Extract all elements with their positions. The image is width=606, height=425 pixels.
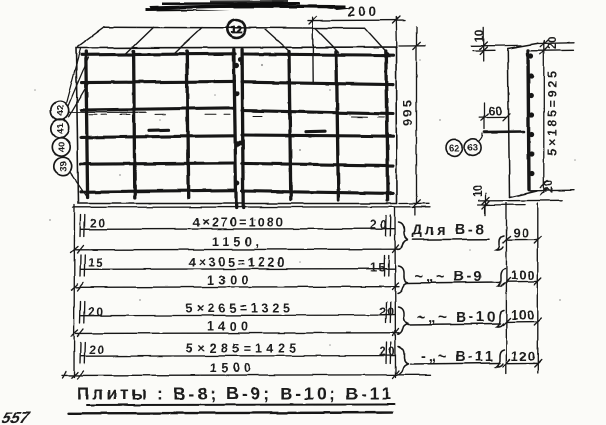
svg-text:15: 15: [370, 261, 385, 275]
svg-text:100: 100: [511, 268, 535, 283]
side view outline: [508, 44, 537, 198]
qty row 120: [503, 360, 541, 367]
annotation circles 39-42 with leaders: [50, 101, 72, 175]
dimension 5x185=925 with 20/20: [529, 40, 574, 195]
svg-text:63: 63: [468, 143, 479, 154]
quantity column verticals: [506, 203, 538, 373]
title line: [77, 384, 391, 404]
svg-text:1400: 1400: [207, 320, 248, 334]
brace and label for B-11: [398, 347, 505, 375]
svg-text:41: 41: [56, 122, 67, 133]
dimension 60 with bar: [480, 103, 510, 129]
qty row 90: [503, 236, 541, 243]
svg-text:20: 20: [90, 216, 105, 230]
protruding cross bar: [485, 130, 525, 133]
svg-text:Плиты : В-8; В-9; В-10; В-11: Плиты : В-8; В-9; В-10; В-11: [77, 384, 391, 404]
svg-text:5×285=1425: 5×285=1425: [186, 342, 296, 356]
svg-text:20: 20: [89, 343, 104, 357]
svg-text:20: 20: [379, 305, 394, 319]
svg-text:20: 20: [88, 305, 103, 319]
left extension vertical: [71, 205, 78, 378]
svg-text:995: 995: [400, 100, 415, 126]
svg-text:60: 60: [489, 105, 503, 119]
scan speckles: [34, 59, 576, 376]
qty row 100: [503, 278, 541, 285]
svg-text:4×270=1080: 4×270=1080: [193, 216, 283, 230]
side view mesh bar (edge-on): [528, 51, 529, 190]
position circle 12: [227, 20, 245, 38]
svg-text:1150,: 1150,: [212, 235, 259, 249]
dimension 10 (bottom): [478, 194, 562, 216]
plate outline (plan view): [76, 47, 397, 204]
dimension 10 (top): [471, 27, 521, 61]
top heavy smudge line: [146, 0, 352, 12]
brace and label for B-9: [398, 266, 506, 294]
svg-text:557: 557: [0, 409, 32, 425]
svg-text:42: 42: [55, 105, 66, 116]
svg-text:20: 20: [379, 345, 395, 359]
lower extension line under plan: [73, 207, 485, 215]
svg-text:1500: 1500: [210, 361, 251, 375]
svg-text:120: 120: [511, 349, 535, 364]
row B-10 dimensions: [76, 302, 399, 337]
qty row 100 (second): [503, 318, 541, 325]
leader diagonals to vertical bar tops: [78, 27, 389, 53]
dimension 995: [399, 28, 429, 208]
svg-text:10: 10: [473, 29, 487, 42]
svg-text:15: 15: [88, 256, 103, 270]
svg-text:Для В-8: Для В-8: [412, 223, 484, 239]
svg-text:90: 90: [513, 225, 529, 240]
rebar hooks in middle gap: [234, 58, 243, 186]
top extent line for item 12: [104, 26, 365, 29]
row B-11 dimensions: [62, 342, 430, 379]
row B-9 dimensions: [76, 255, 399, 291]
svg-text:10: 10: [471, 184, 485, 197]
mesh vertical bars: [86, 50, 388, 209]
brace and label for B-10: [398, 307, 505, 335]
svg-text:12: 12: [230, 24, 242, 36]
svg-text:20: 20: [544, 180, 556, 193]
svg-text:100: 100: [511, 308, 534, 323]
svg-text:~„~ В-10: ~„~ В-10: [417, 310, 495, 326]
mesh horizontal bars, right mat: [242, 54, 393, 193]
svg-text:-„~ В-11: -„~ В-11: [421, 349, 493, 365]
weld marks: [149, 130, 325, 132]
svg-text:39: 39: [59, 161, 70, 172]
svg-text:5×185=925: 5×185=925: [546, 71, 560, 156]
circles 62 63 with leader: [446, 134, 483, 156]
svg-text:5×265=1325: 5×265=1325: [186, 302, 290, 316]
right extension vertical: [394, 207, 397, 377]
brace and label for B-8: [398, 222, 505, 250]
svg-text:200: 200: [347, 4, 376, 19]
svg-text:20: 20: [547, 37, 559, 50]
svg-text:4×305=1220: 4×305=1220: [189, 256, 284, 270]
page number 557: [0, 409, 32, 425]
mesh horizontal bars, left mat: [81, 54, 235, 192]
ink blobs at some intersections: [84, 52, 392, 195]
dimension 200: [308, 16, 405, 84]
cross-bar dots on side view: [528, 53, 534, 176]
svg-text:40: 40: [57, 142, 68, 153]
axis dash-dot line: [89, 114, 384, 117]
svg-text:62: 62: [449, 143, 460, 154]
svg-text:1300: 1300: [207, 274, 248, 288]
title underline double: [68, 405, 394, 414]
row B-8 dimensions: [76, 215, 400, 253]
